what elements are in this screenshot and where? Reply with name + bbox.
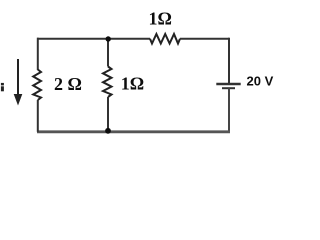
resistor R top 1ohm zigzag [150, 34, 180, 44]
wire bottom [37, 130, 230, 133]
battery V1 short plate [222, 87, 235, 89]
resistor R1 2ohm zigzag [33, 70, 41, 101]
wire middle upper [107, 39, 109, 67]
label i [1, 83, 4, 91]
wire right lower [228, 88, 230, 132]
svg-text:1Ω: 1Ω [121, 73, 144, 93]
wire left lower [37, 100, 39, 132]
wire right upper [228, 38, 230, 84]
svg-text:2 Ω: 2 Ω [54, 74, 82, 94]
node junction top [106, 36, 111, 41]
node junction bottom [105, 128, 111, 134]
current arrow i [17, 59, 19, 96]
wire top-left segment [37, 38, 150, 40]
svg-text:20 V: 20 V [247, 74, 274, 89]
resistor R2 1ohm zigzag [103, 67, 112, 98]
svg-text:1Ω: 1Ω [149, 9, 172, 29]
wire middle lower [107, 97, 109, 132]
battery V1 long plate [216, 83, 240, 85]
wire left upper [37, 38, 39, 70]
wire top-right segment [180, 38, 229, 40]
